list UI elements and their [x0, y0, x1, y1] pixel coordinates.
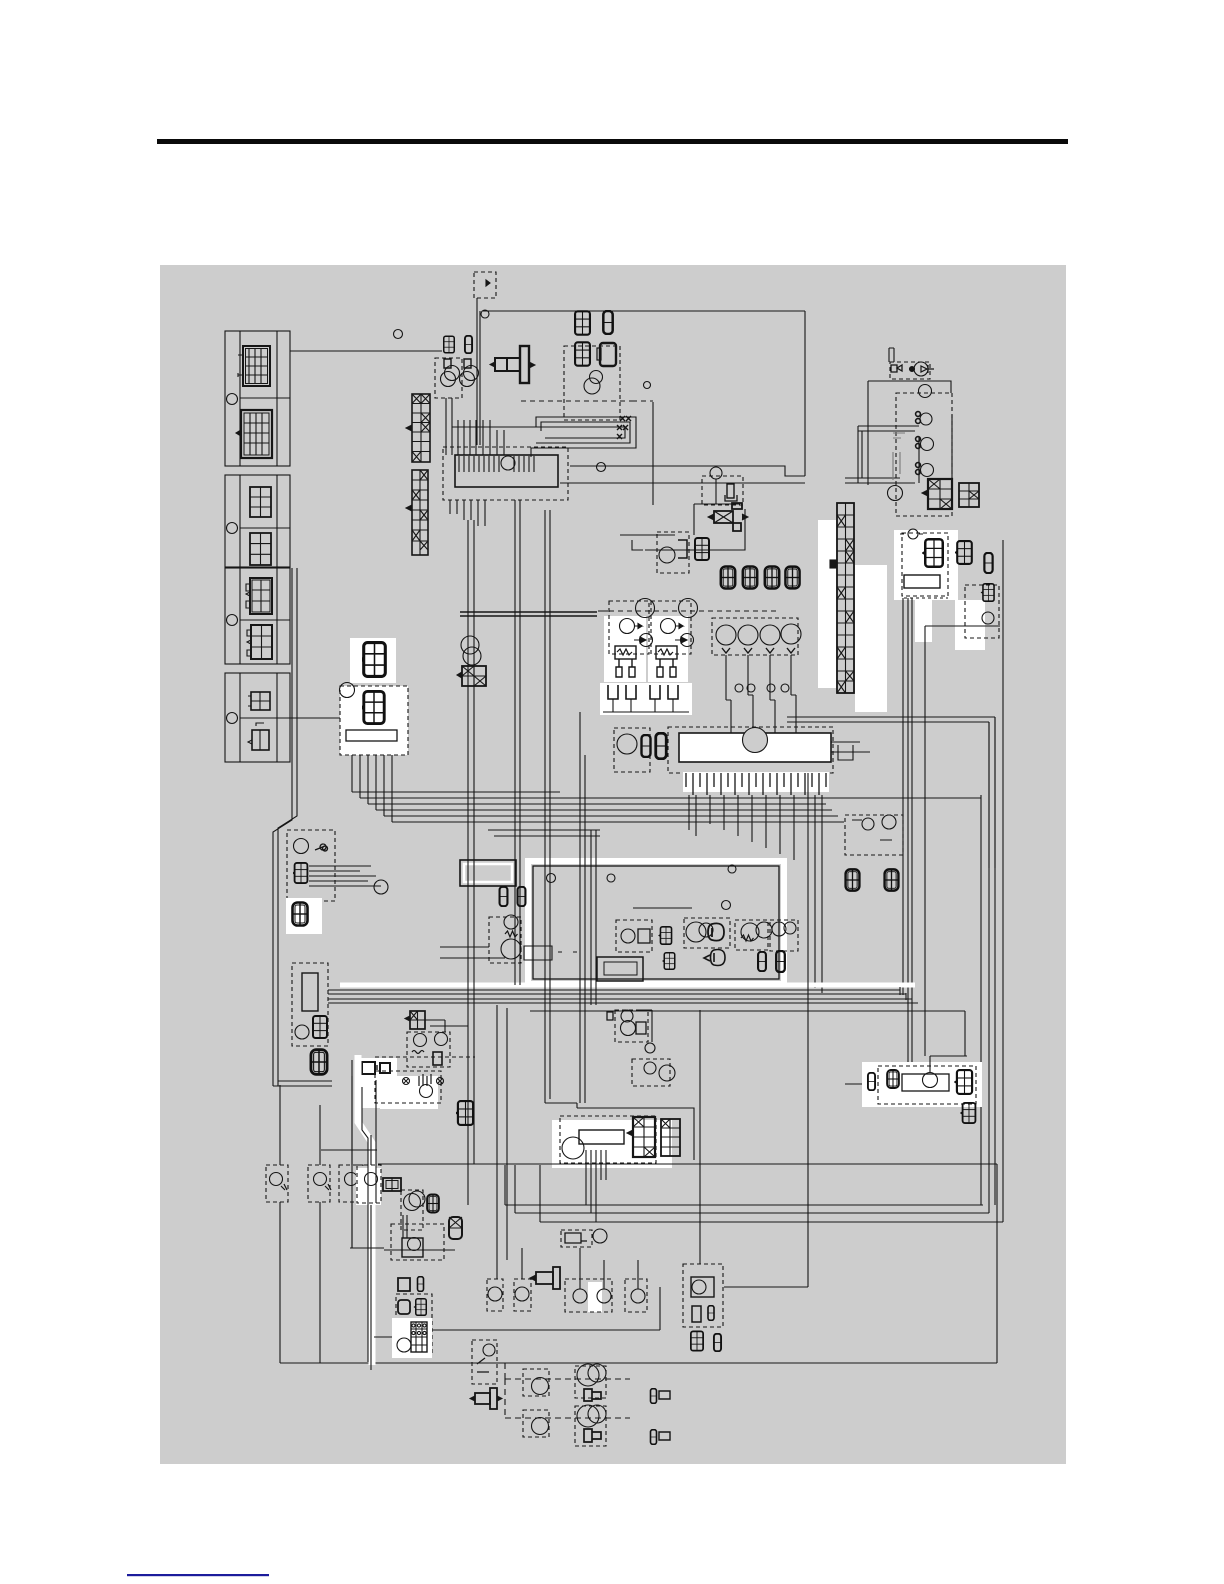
battery cell circles	[919, 385, 932, 398]
wire into battery area	[845, 426, 919, 483]
meter assembly block	[455, 455, 558, 487]
switch grid conn	[658, 927, 671, 944]
tail connector	[383, 1178, 401, 1191]
wire	[515, 500, 520, 985]
wire neutral out	[328, 990, 918, 1003]
rectifier grid connector	[922, 539, 943, 567]
switch grid conn lower	[662, 953, 675, 970]
key switch small connectors	[444, 359, 471, 368]
wire fan to right bus	[352, 792, 981, 822]
wire from fuse box A to key switch connectors	[290, 350, 442, 352]
wire heavy center horizontal	[460, 612, 597, 616]
wire	[925, 626, 1000, 1213]
ECU dashed outline	[668, 727, 833, 773]
spark plug comb wires	[608, 685, 678, 699]
ignitor connector	[981, 584, 994, 601]
connector pair M1 capsule	[603, 311, 612, 334]
capsule	[868, 1073, 875, 1090]
sensor dashed boxes row	[487, 1279, 503, 1311]
relay grid connector 2	[359, 691, 384, 723]
relay dashed box	[407, 1032, 450, 1067]
left dashed box	[472, 1340, 497, 1384]
horn triangle	[708, 923, 724, 940]
wire	[425, 1020, 468, 1032]
injector check circles	[735, 684, 743, 692]
wire	[350, 1247, 384, 1249]
sidestand connector 2 white backing	[286, 898, 322, 934]
clutch connector capsule 2	[656, 733, 667, 759]
fuse box B outline	[225, 475, 290, 567]
diagram gray panel	[160, 265, 1066, 1464]
wire above loop	[521, 400, 653, 402]
rounded connector	[692, 538, 709, 560]
relay dashed white box	[340, 686, 408, 755]
connector B1	[250, 487, 271, 517]
bulb circles	[590, 371, 603, 384]
sidestand connector 2	[293, 903, 308, 926]
wire harness combs into meter	[446, 398, 504, 455]
starter relay contacts	[891, 365, 902, 372]
rectifier capsule	[984, 553, 992, 573]
relay white backing	[350, 638, 396, 683]
license lamp circles	[401, 1190, 423, 1230]
ring terminals	[547, 874, 556, 883]
wire left stubs	[440, 946, 577, 960]
ring	[710, 467, 722, 479]
wire bend	[694, 504, 745, 550]
wire fuse box D feed	[290, 717, 340, 719]
connector pair K1	[442, 336, 473, 353]
wire bottom long	[280, 1362, 997, 1364]
wire right bus from battery	[952, 415, 1003, 1222]
white backing	[862, 1062, 982, 1107]
relay body	[902, 1074, 949, 1091]
lamp dashed box 3	[339, 1165, 363, 1202]
ECU pin stubs below	[686, 773, 826, 795]
diode block dashed box	[489, 917, 521, 963]
white backing	[552, 1120, 672, 1168]
coil 1 symbol	[615, 619, 653, 678]
connector C2	[247, 625, 272, 659]
meter coupler dashed box	[564, 346, 620, 420]
wire	[468, 520, 474, 1205]
wire	[694, 479, 740, 504]
wire bus to flasher	[497, 1005, 965, 1279]
wire bundle below bus	[488, 830, 600, 836]
capsule pair under relay block	[500, 887, 508, 906]
fuse box D outline	[225, 673, 290, 762]
connector pair M1 grid	[572, 311, 590, 334]
wire ECU right	[831, 742, 870, 760]
node: top dashed junction box	[474, 272, 496, 298]
crosshatch capsule	[449, 1217, 462, 1239]
grid conn below	[960, 1103, 976, 1123]
wire battery frame	[868, 381, 951, 485]
bold square connectors	[358, 1062, 390, 1074]
coil 2 dashed box	[651, 601, 691, 654]
wire from bus down	[900, 987, 906, 1000]
key switch dashed box	[435, 358, 462, 398]
wire	[430, 1287, 660, 1330]
bolt	[470, 1388, 502, 1409]
clutch connector capsule	[642, 735, 651, 757]
sidestand grid connector	[292, 863, 308, 883]
key switch coils	[441, 366, 479, 387]
relay box on loop bottom	[597, 957, 643, 981]
wire horizontal pair upper right	[787, 717, 995, 868]
3phase connector	[627, 1117, 655, 1157]
rectifier dashed outline	[902, 533, 948, 596]
triangle connector lower	[704, 950, 725, 966]
ignition switch sensor bolt	[490, 346, 535, 383]
white backing plug comb	[600, 683, 692, 715]
neutral grid connector	[310, 1016, 327, 1038]
wire second row	[560, 482, 805, 484]
dashed box	[560, 1116, 656, 1163]
connector D1	[248, 692, 270, 710]
switch dashed box 2	[684, 918, 730, 948]
fuse F1 grid connector	[238, 346, 270, 386]
wire	[598, 611, 692, 908]
crosshatch bar 2	[406, 470, 428, 555]
white halo on main harness line	[358, 1055, 372, 1365]
white backing coil 1	[604, 616, 646, 682]
relay circle	[340, 683, 355, 698]
wire	[724, 773, 808, 1287]
wire fan from sidestand	[309, 866, 381, 886]
connector C1	[246, 578, 272, 614]
rectifier unit box	[904, 575, 940, 588]
grid conn	[954, 1070, 972, 1094]
dashed box	[702, 476, 743, 505]
injector wires down	[726, 655, 791, 700]
x connector	[457, 666, 486, 686]
row2	[505, 1379, 630, 1418]
connector pair M2 grid	[572, 342, 590, 365]
relay block top-left	[460, 860, 516, 886]
wire left bus double vertical	[273, 568, 297, 1086]
switch lever glyphs	[315, 844, 328, 851]
fuse F2 grid connector	[236, 410, 272, 458]
sidestand dashed box	[287, 830, 335, 901]
meter assembly dashed outline	[443, 447, 568, 500]
neutral circle	[295, 1025, 309, 1039]
crosshatch bar 1	[406, 394, 430, 462]
wires from relay down fanning right	[352, 755, 392, 822]
battery sub dashed box	[657, 532, 689, 573]
node ring terminal	[394, 330, 403, 339]
flower conn	[427, 1195, 439, 1213]
neutral connector 3	[311, 1050, 327, 1075]
outer wire rect	[577, 1108, 694, 1160]
wire left	[620, 535, 710, 550]
clutch switch circle	[617, 734, 637, 754]
tps bolt	[530, 1267, 560, 1289]
ECU long pin wires	[689, 795, 822, 993]
wire right of loop	[652, 402, 654, 505]
row1	[505, 1363, 630, 1379]
wire stubs below meter	[450, 500, 485, 526]
white backing	[894, 530, 958, 600]
main fuse connectors with X	[922, 479, 952, 509]
battery dashed box	[896, 393, 952, 516]
top rule	[157, 139, 1068, 144]
fuse box C outline	[225, 568, 290, 664]
rectifier grid connector 2	[954, 541, 972, 564]
x-grid connector	[405, 1011, 425, 1029]
coil 1 dashed box	[609, 601, 649, 654]
injector diodes	[722, 648, 795, 653]
lamp dashed box 1	[266, 1165, 288, 1202]
injector circles	[716, 624, 801, 645]
relay grid connector	[359, 643, 385, 677]
wire top horizontal bus	[483, 310, 805, 312]
lamp dashed box 4 white	[356, 1168, 381, 1205]
neutral body rect	[302, 973, 318, 1011]
main fuse block	[708, 503, 748, 531]
fuse box A outline	[225, 331, 290, 466]
stator body	[579, 1130, 624, 1144]
dashed box	[878, 1066, 976, 1104]
white backing coil 2	[648, 616, 688, 682]
wire to starter cluster	[570, 311, 805, 476]
ignitor dashed box	[965, 585, 999, 638]
ring terminal	[908, 529, 918, 539]
wire from junction box down	[477, 298, 480, 445]
feed verticals	[522, 1248, 638, 1289]
wire pair down from rectifier	[903, 598, 965, 1066]
white backing	[392, 1318, 432, 1358]
wire coil feed dashed	[609, 610, 780, 612]
wire loop maze	[452, 417, 636, 457]
connector pair M2 capsule	[597, 343, 616, 366]
white backing	[855, 565, 887, 712]
flower conn	[887, 1070, 899, 1088]
connector B2	[250, 533, 271, 565]
fuse grid	[411, 1322, 427, 1352]
flower connector pair right	[846, 869, 860, 890]
verticals to lamps	[280, 1076, 371, 1370]
lamp dashed box 2	[308, 1165, 330, 1202]
white backing	[588, 1282, 602, 1312]
right grip dashed box	[770, 920, 798, 951]
connector below right	[455, 1101, 473, 1125]
wire bottom of left bus	[273, 1081, 332, 1086]
stator comb	[586, 1150, 606, 1222]
starter relay dashed box	[890, 362, 930, 379]
white band under ECU pins	[683, 772, 829, 792]
white backing	[357, 1058, 397, 1108]
battery bracket	[893, 433, 905, 480]
junction dots on loop	[617, 416, 631, 439]
capsules below	[758, 952, 766, 971]
contact grid	[727, 484, 734, 498]
connector D2	[248, 723, 269, 750]
bottom link underline	[127, 1574, 269, 1576]
pickup circles above coils	[636, 599, 655, 618]
start switch dashed box	[735, 920, 768, 950]
diode circles	[504, 915, 518, 929]
ECU boss circle	[743, 728, 768, 753]
switch dashed box 1	[616, 920, 652, 952]
coil 2 symbol	[656, 619, 694, 678]
wire	[545, 510, 550, 1103]
neutral dashed box	[292, 963, 328, 1046]
ECU side connector cluster dashed box	[614, 728, 650, 772]
relay body rect	[346, 730, 397, 741]
wire	[700, 1010, 967, 1264]
injector dashed box	[712, 618, 798, 655]
diode box dashed	[375, 1071, 441, 1103]
wire	[545, 712, 596, 1108]
sidestand circle	[294, 839, 309, 854]
ECU white body	[679, 733, 831, 762]
bus white halo	[340, 983, 915, 988]
